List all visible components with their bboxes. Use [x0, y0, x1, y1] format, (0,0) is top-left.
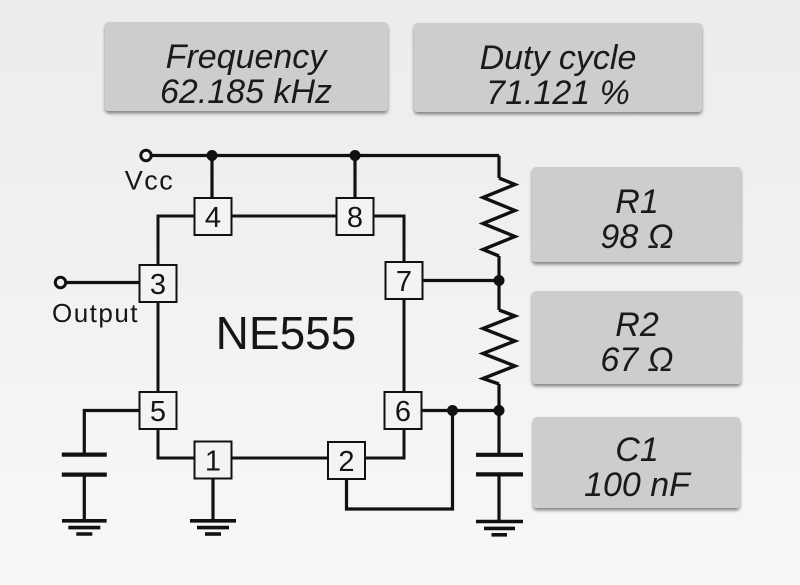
- terminal Vcc: [141, 150, 151, 160]
- wire pin5 to C2: [84, 411, 140, 454]
- svg-text:R2: R2: [615, 306, 659, 344]
- wire pin8 to Vcc rail: [353, 156, 356, 201]
- svg-text:2: 2: [338, 446, 354, 478]
- junction dot node B: [494, 405, 505, 416]
- pin 3: [140, 265, 177, 302]
- svg-text:62.185 kHz: 62.185 kHz: [160, 73, 332, 111]
- R1 value box: [532, 167, 741, 262]
- terminal Output: [55, 277, 65, 287]
- C1 value box: [533, 417, 740, 508]
- junction dot node A: [494, 275, 505, 286]
- svg-text:Duty cycle: Duty cycle: [480, 39, 637, 77]
- op IC NE555 outline: [158, 216, 404, 458]
- svg-text:71.121 %: 71.121 %: [486, 74, 630, 112]
- wire pin2 to trigger branch: [347, 411, 453, 510]
- wire C1 bottom to ground: [497, 476, 500, 521]
- pin 2: [328, 442, 365, 479]
- pin 1: [195, 442, 232, 479]
- pin 8: [337, 198, 374, 235]
- frequency display box: [105, 22, 388, 111]
- svg-text:8: 8: [347, 202, 363, 234]
- resistor R1: [483, 178, 515, 256]
- duty cycle display box: [414, 23, 702, 112]
- wire C2 bottom to ground: [83, 476, 86, 520]
- svg-text:100 nF: 100 nF: [584, 466, 692, 504]
- wire Vcc rail to R1 top: [497, 156, 500, 179]
- svg-text:6: 6: [395, 396, 411, 428]
- wire pin4 to Vcc rail: [210, 156, 213, 201]
- wire Output to pin3: [66, 281, 140, 284]
- svg-text:98 Ω: 98 Ω: [600, 218, 673, 256]
- svg-text:5: 5: [150, 396, 166, 428]
- wire pin1 to ground: [211, 478, 214, 520]
- wire R1 bottom to node A: [497, 256, 500, 310]
- pin 4: [195, 198, 232, 235]
- svg-text:7: 7: [396, 266, 412, 298]
- pin 7: [386, 262, 423, 299]
- svg-text:R1: R1: [615, 183, 658, 221]
- pin 5: [140, 392, 177, 429]
- pin 6: [385, 392, 422, 429]
- svg-text:67 Ω: 67 Ω: [600, 341, 673, 379]
- ground below C1: [476, 522, 523, 535]
- R2 value box: [532, 291, 741, 384]
- wire R2 bottom to node B: [497, 384, 500, 453]
- junction dot at trigger branch: [447, 405, 458, 416]
- svg-text:NE555: NE555: [216, 307, 357, 359]
- resistor R2: [483, 310, 515, 384]
- svg-text:1: 1: [205, 446, 221, 478]
- wire pin6 to node B: [422, 409, 499, 412]
- capacitor C2: [62, 455, 107, 475]
- svg-text:4: 4: [205, 202, 221, 234]
- ground below C2: [62, 521, 107, 534]
- ground below pin1: [190, 521, 236, 534]
- wire Vcc rail: [151, 154, 499, 157]
- svg-text:3: 3: [150, 269, 166, 301]
- svg-text:C1: C1: [615, 431, 658, 469]
- wire pin7 to node A: [422, 279, 499, 282]
- junction dot at pin4/Vcc: [207, 150, 218, 161]
- svg-text:Output: Output: [52, 298, 139, 328]
- svg-text:Vcc: Vcc: [125, 166, 175, 196]
- svg-text:Frequency: Frequency: [166, 38, 329, 76]
- capacitor C1: [476, 455, 523, 475]
- junction dot at pin8/Vcc: [350, 150, 361, 161]
